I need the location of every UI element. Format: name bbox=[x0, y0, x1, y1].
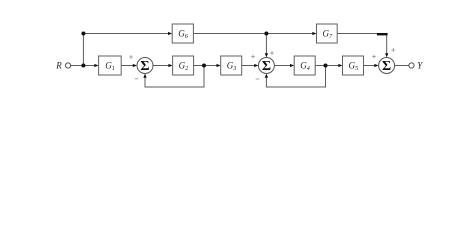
svg-text:Σ: Σ bbox=[140, 59, 149, 74]
svg-text:Σ: Σ bbox=[262, 59, 271, 74]
svg-text:R: R bbox=[55, 61, 62, 71]
svg-text:Σ: Σ bbox=[382, 59, 391, 74]
